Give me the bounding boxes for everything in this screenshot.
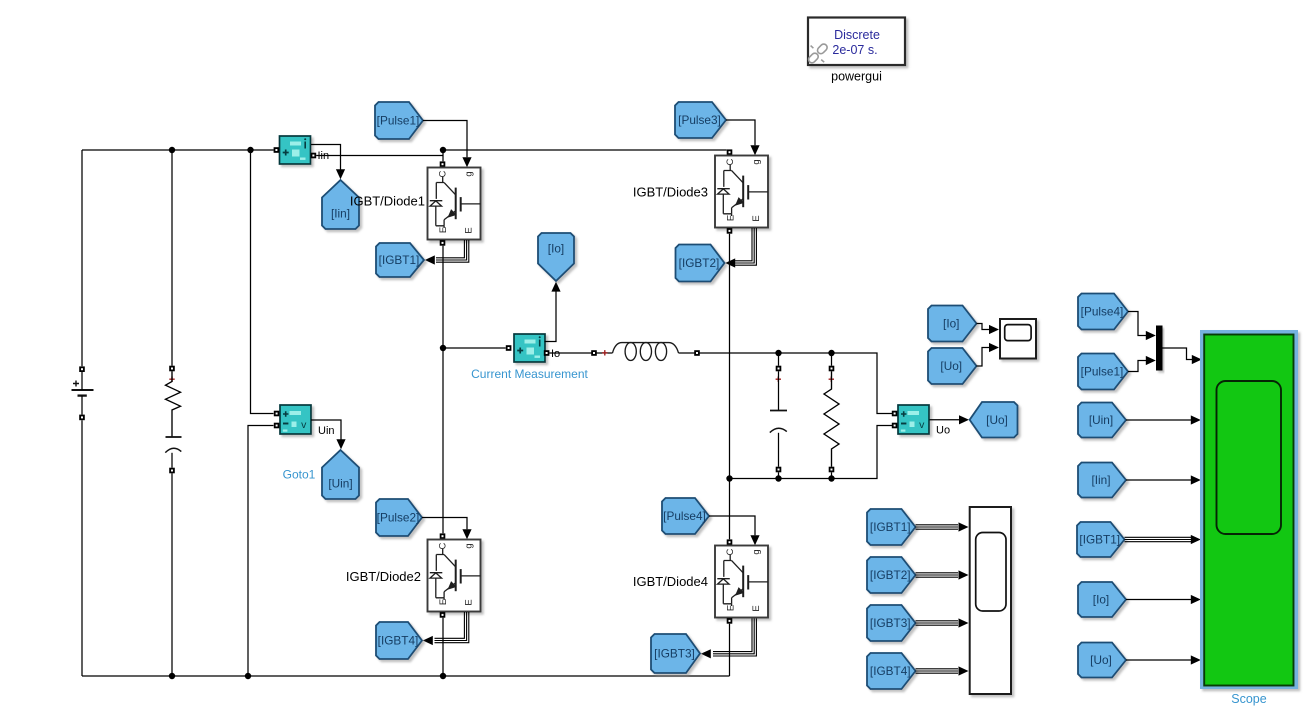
from tag [Iin] scope feed: [1078, 463, 1126, 498]
port IGBT4 collector: [727, 539, 733, 545]
junction output top rail / cap: [775, 350, 781, 356]
svg-text:[Uo]: [Uo]: [986, 413, 1008, 427]
svg-text:C: C: [725, 158, 736, 165]
resistor R load zigzag: [824, 371, 839, 466]
svg-text:powergui: powergui: [831, 70, 882, 84]
wire RC branch lower: [171, 453, 173, 468]
wire Io to small scope: [977, 324, 990, 330]
goto tag [Io]: [538, 233, 574, 281]
wire Pulse4 gate: [709, 516, 755, 535]
wire Pulse2 gate: [422, 518, 467, 530]
svg-text:[IGBT2]: [IGBT2]: [870, 568, 911, 582]
port battery -: [79, 415, 85, 421]
powergui block: [808, 18, 905, 66]
svg-text:[Uin]: [Uin]: [1089, 413, 1113, 427]
svg-text:g: g: [464, 171, 475, 176]
port Io measurement output: [544, 350, 550, 356]
voltage measurement Uo: [898, 405, 929, 434]
junction bottom rail / RC branch: [169, 673, 175, 679]
wire RC snubber branch upper: [171, 150, 173, 366]
svg-text:[Pulse2]: [Pulse2]: [377, 511, 420, 525]
svg-text:IGBT/Diode4: IGBT/Diode4: [633, 574, 708, 589]
from tag [IGBT3] scope feed: [867, 605, 916, 641]
wire DC source branch upper: [81, 150, 83, 366]
resistor R snubber zigzag: [166, 371, 181, 437]
junction bottom rail / left leg: [440, 673, 446, 679]
svg-text:[IGBT4]: [IGBT4]: [870, 664, 911, 678]
svg-text:Scope: Scope: [1231, 692, 1266, 706]
wire Pulse1 to mux: [1128, 361, 1146, 372]
svg-text:[Pulse4]: [Pulse4]: [663, 509, 706, 523]
wire Uin + sense tap: [251, 150, 274, 414]
wire Uo to scope: [1126, 659, 1191, 661]
from tag [Pulse4] scope feed: [1078, 294, 1128, 330]
from tag [Pulse1] scope feed: [1078, 354, 1128, 390]
svg-text:E: E: [464, 227, 475, 233]
junction top rail / Uin tap: [247, 147, 253, 153]
wire Io output to inductor: [549, 352, 612, 354]
wire IGBT2 emitter to bottom rail: [442, 618, 444, 676]
junction left leg top: [440, 147, 446, 153]
IGBT/Diode3 block U3: [715, 156, 768, 228]
wire Uin output to goto: [311, 420, 341, 440]
svg-text:g: g: [751, 159, 762, 164]
mux block: [1156, 326, 1163, 371]
svg-text:[Uo]: [Uo]: [1090, 653, 1112, 667]
svg-text:E: E: [726, 215, 737, 221]
svg-text:IGBT/Diode1: IGBT/Diode1: [350, 194, 425, 209]
value + polarity mark RC branch: [169, 377, 174, 382]
svg-text:[Pulse3]: [Pulse3]: [678, 113, 721, 127]
wire Io to scope: [1126, 599, 1191, 601]
wire top rail to right bridge leg: [443, 149, 727, 151]
junction top rail / RC branch: [169, 147, 175, 153]
port Iin measurement output: [311, 153, 317, 159]
svg-text:Current Measurement: Current Measurement: [471, 367, 588, 381]
svg-text:E: E: [438, 227, 449, 233]
wire IGBT2 vector to gate scope: [916, 572, 959, 574]
from tag [Io] main scope feed: [1078, 582, 1126, 617]
wire Uin - sense tap: [248, 426, 274, 677]
svg-text:[Uo]: [Uo]: [940, 359, 962, 373]
IGBT/Diode1 block U1: [428, 168, 481, 240]
port Io measurement input: [506, 345, 512, 351]
powergui broken-link icon: [807, 43, 828, 65]
Scope block main (green, selected): [1200, 330, 1298, 689]
wire IGBT1 vector to scope: [1125, 536, 1192, 538]
port IGBT1 emitter: [440, 240, 446, 246]
svg-text:g: g: [464, 543, 475, 548]
DC voltage source battery symbol: [72, 381, 94, 396]
inductor L filter coil: [613, 343, 679, 361]
svg-text:C: C: [438, 170, 449, 177]
svg-text:Goto1: Goto1: [283, 468, 316, 482]
wire right bridge leg: [729, 234, 731, 540]
scope block small (Io/Uo): [1000, 319, 1036, 359]
svg-text:Io: Io: [551, 348, 560, 360]
port inductor right: [694, 350, 700, 356]
goto tag [IGBT3]: [651, 634, 700, 673]
wire output bottom rail: [730, 426, 893, 479]
svg-text:E: E: [726, 605, 737, 611]
svg-text:[Io]: [Io]: [548, 241, 564, 255]
port Uo measurement -: [892, 423, 898, 429]
capacitor C output filter: [770, 411, 787, 433]
wire IGBT4 emitter to bottom rail: [729, 624, 731, 676]
wire DC source branch lower: [81, 420, 83, 676]
port IGBT1 collector: [440, 161, 446, 167]
wire IGBT4 vector to gate scope: [916, 668, 959, 670]
wire Iin output to bridge: [316, 155, 443, 157]
from tag [IGBT1] scope feed: [867, 509, 916, 545]
wire bottom DC rail: [82, 675, 730, 677]
goto tag [Iin]: [322, 180, 359, 229]
svg-text:C: C: [438, 542, 449, 549]
port RC branch top: [169, 366, 175, 372]
from tag [Uin] scope feed: [1078, 403, 1126, 438]
svg-text:[Uin]: [Uin]: [328, 476, 352, 490]
goto tag [IGBT4]: [376, 622, 422, 659]
svg-text:[Pulse1]: [Pulse1]: [1081, 365, 1124, 379]
svg-text:[IGBT1]: [IGBT1]: [1079, 533, 1120, 547]
port output resistor top: [829, 366, 835, 372]
goto tag [IGBT2]: [676, 245, 725, 282]
port output resistor bottom: [829, 467, 835, 473]
wire junction into IGBT1 collector: [442, 150, 444, 161]
svg-text:v: v: [301, 419, 307, 431]
value + polarity mark inductor: [602, 350, 607, 355]
from tag [Io] scope feed: [928, 306, 977, 342]
scope block gate signals (white tall): [970, 507, 1011, 694]
svg-text:v: v: [919, 419, 925, 431]
wire Iin signal tap to goto: [311, 145, 341, 170]
svg-text:[Pulse1]: [Pulse1]: [377, 114, 420, 128]
port Iin measurement input: [274, 147, 280, 153]
port Uin measurement +: [274, 411, 280, 417]
svg-text:[IGBT3]: [IGBT3]: [870, 616, 911, 630]
svg-text:E: E: [438, 599, 449, 605]
junction output top rail / res: [828, 350, 834, 356]
port inductor left: [591, 350, 597, 356]
port Uin measurement -: [274, 423, 280, 429]
wire battery plate leads: [81, 372, 83, 415]
wire Pulse3 gate: [726, 120, 755, 145]
svg-text:E: E: [751, 605, 762, 611]
junction output bottom rail / cap: [775, 475, 781, 481]
from tag [Pulse2]: [376, 499, 422, 536]
svg-text:[Iin]: [Iin]: [1091, 473, 1110, 487]
wire IGBT4 vector output triple: [713, 619, 752, 652]
svg-text:2e-07 s.: 2e-07 s.: [832, 43, 877, 57]
svg-text:[Io]: [Io]: [943, 317, 959, 331]
svg-text:[Io]: [Io]: [1093, 593, 1109, 607]
value + polarity mark output res: [829, 377, 834, 382]
from tag [Pulse3]: [675, 102, 726, 138]
wire output resistor branch upper: [831, 353, 833, 366]
wire output capacitor branch lower: [778, 433, 780, 467]
IGBT/Diode2 block U2: [428, 540, 481, 612]
from tag [Uo] main scope feed: [1078, 643, 1126, 678]
wire Io signal tap to goto: [545, 291, 557, 341]
wire output capacitor branch upper: [778, 353, 780, 366]
junction output bottom rail / res: [828, 475, 834, 481]
svg-text:[IGBT1]: [IGBT1]: [870, 520, 911, 534]
from tag [IGBT1] main scope feed: [1077, 522, 1125, 557]
svg-text:[IGBT4]: [IGBT4]: [378, 634, 419, 648]
svg-text:IGBT/Diode2: IGBT/Diode2: [346, 569, 421, 584]
port IGBT2 emitter: [440, 612, 446, 618]
wire IGBT1 vector output triple: [436, 240, 464, 258]
svg-text:[IGBT2]: [IGBT2]: [679, 256, 720, 270]
current measurement Io (Current Measurement): [514, 334, 545, 362]
port output capacitor bottom: [776, 467, 782, 473]
wire IGBT3 vector to gate scope: [916, 620, 959, 622]
svg-text:E: E: [751, 215, 762, 221]
wire IGBT1 vector to gate scope: [916, 524, 959, 526]
from tag [Pulse1]: [375, 102, 423, 139]
port RC branch bottom: [169, 468, 175, 474]
wire Uin to scope: [1126, 419, 1191, 421]
port battery +: [79, 366, 85, 372]
wire bridge midpoint to current measurement: [443, 347, 506, 349]
wire top DC rail: [82, 149, 274, 151]
wire IGBT2 vector output triple: [435, 612, 465, 638]
value + polarity mark output cap: [776, 377, 781, 382]
wire Uo output to goto: [930, 419, 960, 421]
svg-text:IGBT/Diode3: IGBT/Diode3: [633, 185, 708, 200]
port IGBT3 emitter: [727, 228, 733, 234]
from tag [IGBT4] scope feed: [867, 653, 916, 689]
capacitor C snubber: [165, 437, 181, 453]
svg-text:g: g: [751, 549, 762, 554]
port Uo measurement +: [892, 411, 898, 417]
junction right leg midpoint: [726, 475, 732, 481]
port IGBT4 emitter: [727, 618, 733, 624]
port IGBT3 collector: [727, 149, 733, 155]
wire Pulse4 to mux: [1128, 312, 1146, 336]
svg-text:E: E: [464, 599, 475, 605]
svg-text:C: C: [725, 548, 736, 555]
wire Pulse1 gate: [423, 121, 467, 158]
svg-text:Uin: Uin: [318, 425, 335, 437]
wire mux output to scope: [1163, 348, 1193, 360]
from tag [IGBT2] scope feed: [867, 557, 916, 593]
svg-text:Uo: Uo: [936, 424, 950, 436]
goto tag [Uo]: [970, 402, 1018, 438]
from tag [Pulse4]: [662, 498, 709, 534]
svg-text:[IGBT1]: [IGBT1]: [379, 253, 420, 267]
wire Uo to small scope: [977, 348, 990, 367]
goto tag [IGBT1]: [376, 243, 424, 277]
wire Iin to scope: [1126, 479, 1191, 481]
port IGBT2 collector: [440, 533, 446, 539]
junction bottom rail / Uin tap: [245, 673, 251, 679]
junction left leg midpoint: [440, 345, 446, 351]
goto tag [Uin]: [322, 450, 359, 499]
wire inductor to output node: [679, 353, 893, 414]
svg-text:[Iin]: [Iin]: [331, 206, 350, 220]
from tag [Uo] scope feed: [928, 348, 977, 384]
current measurement Iin: [280, 136, 311, 164]
voltage measurement Uin (Goto1): [280, 405, 311, 434]
svg-text:[Pulse4]: [Pulse4]: [1081, 305, 1124, 319]
svg-text:Discrete: Discrete: [834, 28, 880, 42]
wire IGBT3 vector output triple: [735, 228, 752, 261]
port output capacitor top: [776, 366, 782, 372]
IGBT/Diode4 block U4: [715, 546, 768, 618]
wire left bridge leg: [442, 246, 444, 534]
svg-text:[IGBT3]: [IGBT3]: [654, 647, 695, 661]
